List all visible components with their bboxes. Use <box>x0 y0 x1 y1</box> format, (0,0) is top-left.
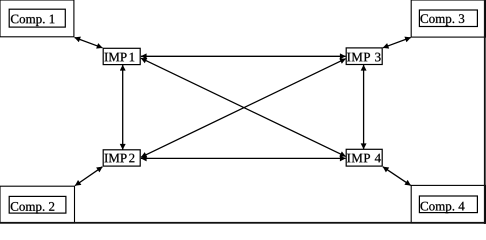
wire IMP2 to IMP3 diagonal <box>141 59 346 158</box>
box IMP2 <box>103 150 140 166</box>
box IMP3 <box>346 48 382 65</box>
box Comp. 3 outer <box>411 0 485 37</box>
box Comp. 2 inner label box <box>9 196 66 213</box>
wire IMP3 to IMP4 vertical <box>363 65 365 149</box>
wire Comp.4 to IMP4 <box>383 167 411 186</box>
wire IMP1 to IMP4 diagonal <box>141 58 346 156</box>
box IMP1 <box>103 48 140 64</box>
wire IMP2 to IMP4 horizontal <box>141 157 346 159</box>
box Comp. 4 outer <box>411 185 485 223</box>
box Comp. 2 outer <box>0 186 75 223</box>
wire Comp.2 to IMP2 <box>75 167 102 186</box>
box IMP4 <box>346 149 382 166</box>
box Comp. 1 outer <box>0 0 74 37</box>
box Comp. 4 inner label box <box>419 196 477 213</box>
frame black right edge <box>484 0 486 224</box>
wire IMP1 to IMP3 horizontal <box>141 55 346 57</box>
frame black bottom edge <box>0 222 486 224</box>
box Comp. 3 inner label box <box>419 10 477 27</box>
wire Comp.3 to IMP3 <box>383 38 411 48</box>
box Comp. 1 inner label box <box>9 9 65 27</box>
wire Comp.1 to IMP1 <box>75 38 103 48</box>
wire IMP1 to IMP2 vertical <box>122 65 124 150</box>
